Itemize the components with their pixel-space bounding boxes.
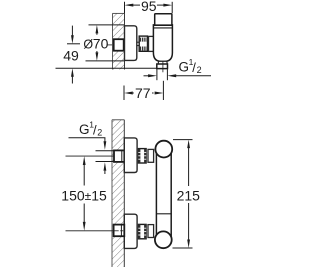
body joint line — [153, 27, 172, 29]
dimension 95 — [125, 2, 173, 14]
bottom sphere (outlet front) — [155, 231, 172, 248]
top sphere (push button front) — [155, 141, 172, 158]
valve body (top view) — [153, 25, 172, 61]
top union nut (bottom view) — [138, 148, 146, 163]
dimension 150 plus-minus 15 — [83, 165, 85, 223]
svg-text:2: 2 — [97, 127, 102, 137]
G1/2 leader line — [69, 137, 106, 139]
dimension 77 — [124, 81, 163, 100]
union nut (knurled, top view) — [137, 36, 148, 51]
tube joint line — [156, 213, 171, 215]
svg-text:77: 77 — [135, 85, 151, 101]
top escutcheon (bottom view) — [124, 138, 137, 173]
inlet union fitting (top view, in wall) — [114, 39, 124, 51]
bottom supply centerline — [66, 230, 114, 232]
top connector (bottom view) — [148, 149, 154, 162]
push button (top view) — [155, 14, 172, 26]
dimension diameter 70 — [86, 25, 125, 61]
svg-text:150±15: 150±15 — [61, 187, 107, 203]
G1/2 arrows (top view) — [144, 75, 150, 77]
outlet neck — [158, 61, 167, 64]
svg-text:70: 70 — [93, 36, 109, 52]
svg-text:215: 215 — [177, 187, 201, 203]
G1/2 up arrow — [104, 171, 106, 174]
outlet face reference line — [56, 67, 157, 69]
svg-text:G: G — [179, 59, 190, 74]
bottom escutcheon (bottom view) — [124, 214, 137, 248]
escutcheon flange (top view) — [125, 26, 137, 61]
dimension 215 — [173, 140, 193, 248]
bottom union nut (bottom view) — [138, 224, 146, 239]
body tube (bottom view) — [155, 152, 157, 237]
G1/2 extension lines (top view) — [156, 69, 158, 80]
G1/2 down arrow — [104, 138, 106, 142]
bottom union fitting (bottom view, in wall) — [114, 225, 125, 237]
svg-text:95: 95 — [141, 0, 157, 14]
top supply centerline — [66, 155, 114, 157]
svg-text:G: G — [79, 122, 90, 137]
top union fitting (bottom view, in wall) — [114, 150, 124, 162]
dimension 49 — [67, 26, 80, 84]
outlet thread G1/2 (top view) — [157, 64, 168, 69]
svg-text:49: 49 — [63, 48, 79, 64]
connector piece (top view) — [149, 36, 155, 51]
bottom connector (bottom view) — [148, 225, 154, 238]
wall hatch (top view) — [113, 13, 125, 69]
inlet pipe edge extension lines — [96, 150, 114, 152]
svg-text:2: 2 — [197, 65, 202, 75]
wall hatch (bottom view) — [112, 120, 124, 267]
inlet centerline tick — [107, 44, 112, 46]
